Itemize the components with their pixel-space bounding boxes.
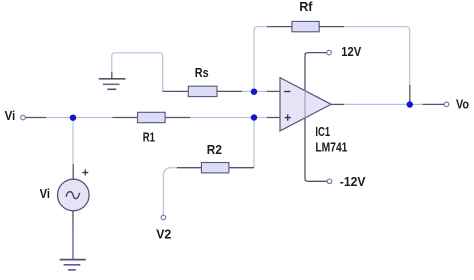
svg-text:Vo: Vo: [456, 96, 469, 111]
wire R1 to node B: [190, 117, 251, 119]
svg-text:Rf: Rf: [299, 0, 313, 14]
ground (top-left): [99, 72, 126, 89]
wire node B to op-amp plus input: [255, 117, 280, 119]
node A (junction at Vi): [70, 115, 76, 121]
wire op-amp power pin to 12V terminal: [305, 53, 327, 90]
svg-text:R2: R2: [207, 142, 222, 157]
svg-text:Vi: Vi: [5, 108, 16, 123]
wire Rf to output node (over, down): [344, 27, 410, 102]
node D (output junction): [407, 101, 413, 107]
op-amp IC1: [280, 53, 347, 181]
voltage source Vi: [40, 170, 90, 211]
wire R2 to V2 terminal (corner down): [163, 168, 176, 216]
svg-text:R1: R1: [143, 130, 155, 145]
ground (bottom): [60, 260, 86, 270]
svg-text:V2: V2: [156, 226, 171, 241]
resistor R1: [113, 112, 191, 144]
wire op-amp power pin to -12V terminal: [305, 118, 327, 181]
terminal Vi: [5, 108, 26, 123]
resistor Rf: [267, 0, 344, 32]
resistor R2: [177, 142, 254, 173]
terminal 12V: [327, 44, 362, 59]
terminal -12V: [327, 174, 366, 189]
svg-text:Vi: Vi: [40, 186, 50, 201]
node C (junction - input): [251, 89, 257, 95]
svg-text:Rs: Rs: [195, 65, 209, 80]
wire node C to op-amp minus input: [255, 90, 280, 92]
wire ground to Rs (up, over, down): [112, 53, 163, 92]
node B (junction + input): [251, 114, 257, 120]
svg-text:LM741: LM741: [315, 140, 347, 155]
resistor Rs: [163, 65, 242, 97]
wire node A to R1: [74, 117, 113, 119]
wire source Vi to ground (bottom): [72, 211, 74, 259]
terminal V2: [156, 215, 171, 241]
wire Rs to node C: [242, 90, 251, 92]
wire node D to Vo terminal: [411, 103, 444, 105]
wire op-amp output to node D: [331, 103, 407, 105]
wire node B down to R2: [253, 120, 255, 167]
wire node C up to Rf: [254, 27, 267, 89]
svg-text:12V: 12V: [341, 44, 361, 59]
terminal Vo: [444, 96, 469, 111]
svg-text:IC1: IC1: [315, 124, 330, 139]
svg-text:-12V: -12V: [340, 174, 366, 189]
wire Vi terminal to node A: [26, 117, 73, 119]
wire node A down to source Vi: [72, 119, 74, 179]
